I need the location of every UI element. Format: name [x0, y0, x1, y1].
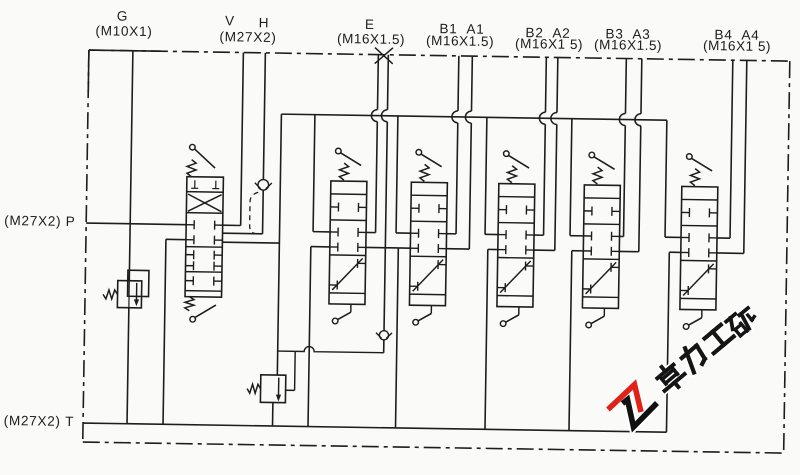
watermark character GONG [703, 323, 734, 353]
svg-text:(M16X1 5): (M16X1 5) [703, 38, 771, 54]
pilot dashed line H [250, 192, 259, 234]
relief valve RV2 spring [247, 384, 261, 393]
wire feed rail to valve V3 [396, 116, 398, 233]
dash-dot enclosure border left [83, 50, 89, 442]
valve V5 bottom lever circle [586, 322, 592, 328]
valve V6 lever arm [691, 158, 712, 171]
svg-text:(M16X1.5): (M16X1.5) [426, 33, 494, 49]
valve V2 blocked glyphs box1 [330, 206, 338, 208]
valve V6 top spring [690, 169, 699, 186]
plugged port X mark at E [375, 48, 393, 64]
wire T return gallery line [83, 423, 666, 432]
valve V5 blocked glyphs box1 [584, 210, 592, 212]
wire P supply line from port P [86, 223, 186, 225]
valve V4 bottom lever circle [500, 321, 506, 327]
wire V1 left to T rail [166, 238, 186, 240]
valve V3 blocked glyphs box2 row2 [410, 247, 418, 249]
valve V2 lever arm [340, 153, 361, 166]
wire E left line down [376, 55, 379, 110]
relief valve RV1 body [117, 281, 141, 308]
valve V3 top spring [420, 164, 429, 181]
valve V4 bottom lever arm [506, 315, 519, 323]
valve V1 top spring [187, 160, 196, 177]
valve V6 flow diagonal box3 [683, 263, 713, 295]
valve V6 lever circle [686, 154, 692, 160]
valve V6 blocked glyph box3 left [680, 289, 688, 291]
valve V2 blocked glyph box3 right [358, 262, 366, 264]
valve V2 top spring [339, 163, 348, 180]
valve V2 bottom lever arm [338, 312, 351, 320]
valve V2 body outline [329, 181, 367, 305]
wire feed rail down from feed line [277, 114, 281, 375]
relief valve RV2 body [260, 375, 285, 403]
valve V5 bottom lever arm [591, 316, 604, 324]
relief valve RV1 internal line [128, 281, 130, 308]
valve V1 body outline [185, 177, 223, 298]
valve V3 lever circle [416, 149, 422, 155]
wire valve V2 to tank rail [311, 246, 330, 248]
wire port G line down [129, 51, 133, 281]
valve V1 blocked port glyphs row3 [186, 254, 194, 256]
valve V4 blocked glyphs box2 row2 [498, 249, 506, 251]
dash-dot enclosure border right [784, 61, 790, 453]
watermark character ZHUO [652, 359, 689, 396]
wire port V line down [241, 53, 244, 226]
valve V1 lever circle [190, 144, 196, 150]
svg-text:E: E [365, 17, 375, 32]
valve V2 blocked glyph box3 left [329, 284, 337, 286]
svg-text:(M27X2) P: (M27X2) P [4, 213, 76, 229]
wire parallel feed gallery [281, 114, 666, 120]
wire relief RV1 to T line [127, 308, 129, 424]
valve V4 blocked glyph box3 right [526, 265, 534, 267]
relief valve RV2 pilot loop [286, 389, 295, 391]
valve V6 body outline [680, 186, 718, 310]
valve V2 blocked glyphs box2 row1 [330, 231, 338, 233]
valve V1 blocked port glyphs row4 [186, 265, 194, 267]
wire feed line end down to valve V6 [665, 120, 667, 237]
valve V2 lever circle [335, 148, 341, 154]
wire E left line to valve V2 [366, 231, 375, 233]
svg-text:G: G [117, 9, 129, 24]
valve V3 body outline [409, 182, 447, 306]
check valve CV1 on H line [258, 179, 269, 190]
watermark character KUANG [726, 305, 759, 337]
valve V6 blocked glyphs box2 row2 [681, 251, 689, 253]
valve V1 crossed position X [188, 194, 222, 212]
valve V5 blocked glyph box3 right [611, 266, 619, 268]
wire check CV2 to bypass gallery [383, 340, 385, 353]
wire valve V2 right to tank rail [366, 246, 398, 249]
valve V6 blocked glyphs box1 [681, 211, 689, 213]
valve V6 blocked glyph box3 right [709, 268, 717, 270]
relief valve RV1 flow arrow [135, 283, 137, 301]
valve V4 box dividers [499, 196, 535, 199]
valve V6 bottom stub [701, 310, 703, 318]
valve V6 bottom lever circle [683, 324, 689, 330]
wire relief RV2 to T line [272, 403, 274, 426]
watermark logo red chevron [608, 385, 641, 413]
valve V4 blocked glyphs box2 row1 [498, 234, 506, 236]
valve V4 blocked glyph box3 left [497, 287, 505, 289]
svg-text:(M16X1.5): (M16X1.5) [337, 31, 405, 47]
relief valve RV1 spring [103, 290, 118, 299]
valve V4 top spring [507, 166, 516, 183]
valve V5 lever circle [589, 152, 595, 158]
valve V4 blocked glyphs box1 [498, 209, 506, 211]
dash-dot enclosure border bottom [83, 442, 784, 453]
valve V3 bottom lever circle [413, 319, 419, 325]
border solid segment top-left [89, 50, 161, 51]
wire check CV1 to V1 right side [262, 190, 265, 234]
valve V4 lever circle [503, 151, 509, 157]
wire feed rail to valve V2 [313, 115, 315, 232]
valve V3 blocked glyphs box2 row1 [411, 232, 419, 234]
relief valve RV2 flow arrow [277, 378, 279, 396]
valve V4 body outline [497, 184, 535, 308]
valve V2 blocked glyphs box2 row2 [330, 246, 338, 248]
valve V2 flow diagonal box3 [332, 258, 362, 290]
wire valve V6 to tank rail [669, 251, 680, 253]
svg-text:(M10X1): (M10X1) [95, 23, 152, 39]
valve V3 box dividers [411, 194, 447, 197]
valve V4 bottom stub [518, 307, 520, 315]
svg-text:(M27X2): (M27X2) [219, 29, 276, 45]
valve V3 flow diagonal box3 [413, 259, 443, 291]
valve V5 blocked glyphs box2 row2 [583, 250, 591, 252]
wire port B line to valve V5 [624, 59, 627, 114]
wire valve V5 to tank rail [572, 250, 583, 252]
valve V2 bottom stub [350, 304, 352, 312]
valve V3 lever arm [421, 154, 442, 167]
valve V5 blocked glyphs box2 row1 [584, 235, 592, 237]
valve V3 blocked glyph box3 right [438, 264, 446, 266]
wire feed rail to valve V5 [570, 119, 572, 236]
wire port A line to valve V6 [744, 60, 747, 253]
valve V1 blocked port glyphs row5 [185, 280, 193, 282]
svg-text:H: H [259, 15, 270, 30]
valve V5 lever arm [594, 157, 615, 170]
valve V3 bottom lever arm [418, 313, 431, 321]
check valve CV2 on E line [379, 331, 388, 340]
wire feed rail to valve V4 [485, 117, 487, 234]
wire port B line to valve V3 [457, 56, 460, 111]
valve V5 top spring [593, 167, 602, 184]
wire V1 right to V port [223, 224, 241, 226]
wire valve V4 to tank rail [488, 248, 498, 250]
valve V1 bottom lever arm [195, 305, 216, 318]
valve V1 bottom lever circle [190, 316, 196, 322]
valve V6 blocked glyphs box2 row1 [681, 236, 689, 238]
valve V1 lever arm [194, 149, 215, 168]
wire valve V3 to tank rail [398, 247, 410, 249]
wire port H line down [263, 53, 265, 180]
wire port A line to valve V3 [470, 56, 473, 111]
dash-dot enclosure border top [89, 50, 790, 61]
svg-text:V: V [225, 13, 235, 28]
valve V5 body outline [582, 185, 620, 309]
valve V5 flow diagonal box3 [586, 262, 616, 294]
svg-text:(M16X1 5): (M16X1 5) [515, 36, 583, 52]
relief valve RV1 offset box [128, 270, 149, 296]
wire T rail down from V1 [163, 239, 166, 424]
border solid segment left-top [87, 50, 90, 92]
valve V2 box dividers [331, 193, 367, 196]
svg-text:(M27X2) T: (M27X2) T [4, 413, 75, 429]
valve V3 blocked glyphs box1 [411, 207, 419, 209]
valve V6 bottom lever arm [689, 318, 702, 326]
valve V3 blocked glyph box3 left [410, 285, 418, 287]
wire V1 outlet to feed rail [222, 241, 279, 244]
watermark character LI [678, 341, 708, 372]
valve V1 box dividers [187, 191, 223, 194]
wire E right line down [386, 55, 389, 110]
valve V1 blocked port glyphs row2 [186, 239, 194, 241]
valve V1 blocked port glyphs row1 [186, 224, 194, 226]
valve V2 bottom lever circle [332, 318, 338, 324]
valve V3 bottom stub [430, 306, 432, 314]
valve V5 blocked glyph box3 left [583, 288, 591, 290]
wire port B line to valve V6 [730, 60, 733, 238]
valve V5 box dividers [584, 197, 620, 200]
wire port A line to valve V4 [556, 57, 559, 112]
valve V1 cap stubs [194, 180, 196, 188]
wire port A line to valve V5 [640, 59, 643, 114]
valve V1 bottom spring [185, 297, 194, 311]
valve V5 bottom stub [603, 308, 605, 316]
wire bypass gallery horizontal [278, 346, 384, 353]
valve V4 flow diagonal box3 [500, 261, 530, 293]
svg-text:(M16X1.5): (M16X1.5) [594, 37, 662, 53]
valve V4 lever arm [508, 155, 529, 168]
wire port B line to valve V4 [544, 57, 547, 112]
watermark logo black check [623, 400, 658, 428]
valve V6 box dividers [682, 198, 718, 201]
